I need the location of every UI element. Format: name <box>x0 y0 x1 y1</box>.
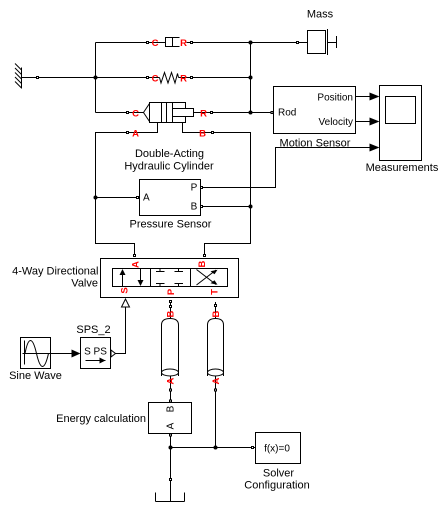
svg-text:Pressure Sensor: Pressure Sensor <box>130 219 212 231</box>
svg-text:Measurements: Measurements <box>366 162 439 174</box>
wire valve T to pipe 2 <box>215 302 217 319</box>
svg-text:R: R <box>180 74 187 85</box>
port square mass <box>297 42 299 44</box>
solver configuration block <box>256 433 301 464</box>
port square pipe 1 bottom <box>170 389 172 391</box>
svg-text:C: C <box>132 109 139 120</box>
port square pressure sensor A <box>137 197 139 199</box>
valve up arrow <box>120 269 126 287</box>
port square valve P <box>170 301 172 303</box>
valve inner rectangle <box>113 269 228 287</box>
wire damper row left <box>96 42 166 44</box>
wire cylinder B port down <box>183 123 251 255</box>
pressure sensor block <box>140 180 201 216</box>
valve divider 2 <box>190 269 192 287</box>
port square solver configuration <box>252 447 254 449</box>
svg-text:A: A <box>211 377 222 384</box>
motion sensor block <box>274 87 356 134</box>
svg-text:B: B <box>199 129 206 140</box>
port square energy calc bottom <box>170 434 172 436</box>
wire to pressure sensor A <box>96 197 140 199</box>
arrowhead Velocity <box>370 118 380 126</box>
svg-text:B: B <box>191 202 198 213</box>
svg-text:A: A <box>132 129 139 140</box>
svg-text:A: A <box>131 261 142 268</box>
arrowhead P into scope <box>370 144 380 152</box>
wire pipe 2 down to solver row <box>215 376 217 448</box>
svg-text:B: B <box>211 310 222 317</box>
svg-text:A: A <box>143 193 150 204</box>
svg-text:Sine Wave: Sine Wave <box>9 370 62 382</box>
wire Velocity to scope <box>356 121 370 123</box>
simulink-PS converter SPS_2 <box>81 338 111 369</box>
wire left bus vertical <box>95 43 97 113</box>
mechanical reference ground <box>15 64 22 89</box>
node junction pressure sensor A tap <box>94 196 98 200</box>
sine wave source block <box>21 338 51 369</box>
port square pipe 2 top <box>215 305 217 307</box>
wire cylinder rod R row <box>194 112 274 114</box>
SPS_2 output triangle port <box>111 350 116 357</box>
wire damper R to mass <box>187 42 308 44</box>
svg-text:f(x)=0: f(x)=0 <box>264 444 290 455</box>
wire pipe 1 to energy calc <box>170 376 172 403</box>
arrowhead Position <box>370 93 380 101</box>
node junction cylinder R / right bus <box>249 111 253 115</box>
hydraulic reference tank symbol <box>156 493 185 502</box>
wire pressure sensor B to bus <box>201 206 251 208</box>
port square cylinder R <box>211 112 213 114</box>
port square damper R <box>191 42 193 44</box>
pipe 1 (hydraulic pipeline, rotated) <box>162 319 179 377</box>
port square damper C <box>147 42 149 44</box>
port square spring R <box>191 77 193 79</box>
svg-text:A: A <box>166 377 177 384</box>
mass block <box>308 29 337 55</box>
scope block Measurements <box>380 86 422 161</box>
port square ground <box>37 77 39 79</box>
port square motion sensor Rod <box>271 112 273 114</box>
svg-text:Motion Sensor: Motion Sensor <box>280 138 351 150</box>
arrowhead into SPS_2 <box>72 350 81 358</box>
port square valve P lower <box>170 306 172 308</box>
wire ground to spring row <box>22 77 160 79</box>
node junction pipe 2 column <box>214 446 218 450</box>
port square cylinder B <box>212 132 214 134</box>
svg-text:B: B <box>166 310 177 317</box>
svg-text:S PS: S PS <box>84 347 107 358</box>
svg-text:S: S <box>120 287 131 293</box>
svg-text:Valve: Valve <box>71 278 98 290</box>
svg-text:Hydraulic Cylinder: Hydraulic Cylinder <box>124 161 214 173</box>
port square cylinder A <box>127 132 129 134</box>
port square valve A <box>134 255 136 257</box>
svg-text:C: C <box>152 74 159 85</box>
svg-text:B: B <box>197 260 208 267</box>
svg-text:P: P <box>191 183 198 194</box>
svg-text:Double-Acting: Double-Acting <box>135 148 204 160</box>
node junction below energy calc <box>169 446 173 450</box>
energy calculation block <box>149 403 192 434</box>
svg-text:Energy calculation: Energy calculation <box>56 413 146 425</box>
port square hydraulic reference <box>170 479 172 481</box>
hydraulic cylinder icon <box>144 103 194 123</box>
wire cylinder C row <box>96 112 144 114</box>
valve crossed arrows <box>197 270 218 286</box>
svg-text:T: T <box>210 289 221 295</box>
damper (translational damper) <box>166 38 180 47</box>
valve divider 1 <box>150 269 152 287</box>
wire right bus vertical <box>250 43 252 113</box>
pipe 2 (hydraulic pipeline, rotated) <box>208 319 224 377</box>
port square pressure sensor P <box>201 187 203 189</box>
spring (translational spring) <box>160 73 179 84</box>
svg-text:Position: Position <box>317 93 353 104</box>
valve down arrow <box>138 269 144 287</box>
wire energy calc down <box>170 434 172 502</box>
port square pipe 2 bottom <box>215 389 217 391</box>
port square energy calc top <box>170 400 172 402</box>
4-way directional valve block <box>101 259 239 298</box>
node junction damper row / right bus <box>249 41 253 45</box>
wire valve P to pipe 1 <box>170 302 172 319</box>
wire pressure sensor P to scope <box>201 148 370 188</box>
port square spring C <box>147 77 149 79</box>
valve closed-center T symbols <box>156 269 183 287</box>
wire Position to scope <box>356 96 370 98</box>
wire to solver configuration <box>171 447 256 449</box>
svg-text:4-Way Directional: 4-Way Directional <box>12 266 98 278</box>
svg-text:Solver: Solver <box>263 468 295 480</box>
port square cylinder C <box>127 112 129 114</box>
valve S input triangle <box>122 299 130 307</box>
svg-text:R: R <box>180 38 187 49</box>
svg-text:SPS_2: SPS_2 <box>76 324 110 336</box>
svg-text:R: R <box>200 109 207 120</box>
svg-text:Rod: Rod <box>278 108 296 119</box>
svg-text:P: P <box>166 288 177 295</box>
wire cylinder A port down <box>96 123 158 255</box>
svg-text:Configuration: Configuration <box>244 480 309 492</box>
node junction left bus on ground wire <box>94 76 98 80</box>
wire SPS_2 to valve S <box>116 307 126 354</box>
svg-text:Mass: Mass <box>307 9 334 21</box>
svg-text:B: B <box>166 405 177 412</box>
port square pressure sensor B <box>201 206 203 208</box>
node junction spring row / right bus <box>249 76 253 80</box>
wire sine wave to SPS_2 <box>51 353 72 355</box>
port square valve B <box>204 255 206 257</box>
wire spring R to right bus <box>179 77 251 79</box>
node junction pressure sensor B tap <box>249 205 253 209</box>
svg-text:A: A <box>166 422 177 429</box>
svg-text:Velocity: Velocity <box>319 117 353 128</box>
svg-text:C: C <box>152 38 159 49</box>
